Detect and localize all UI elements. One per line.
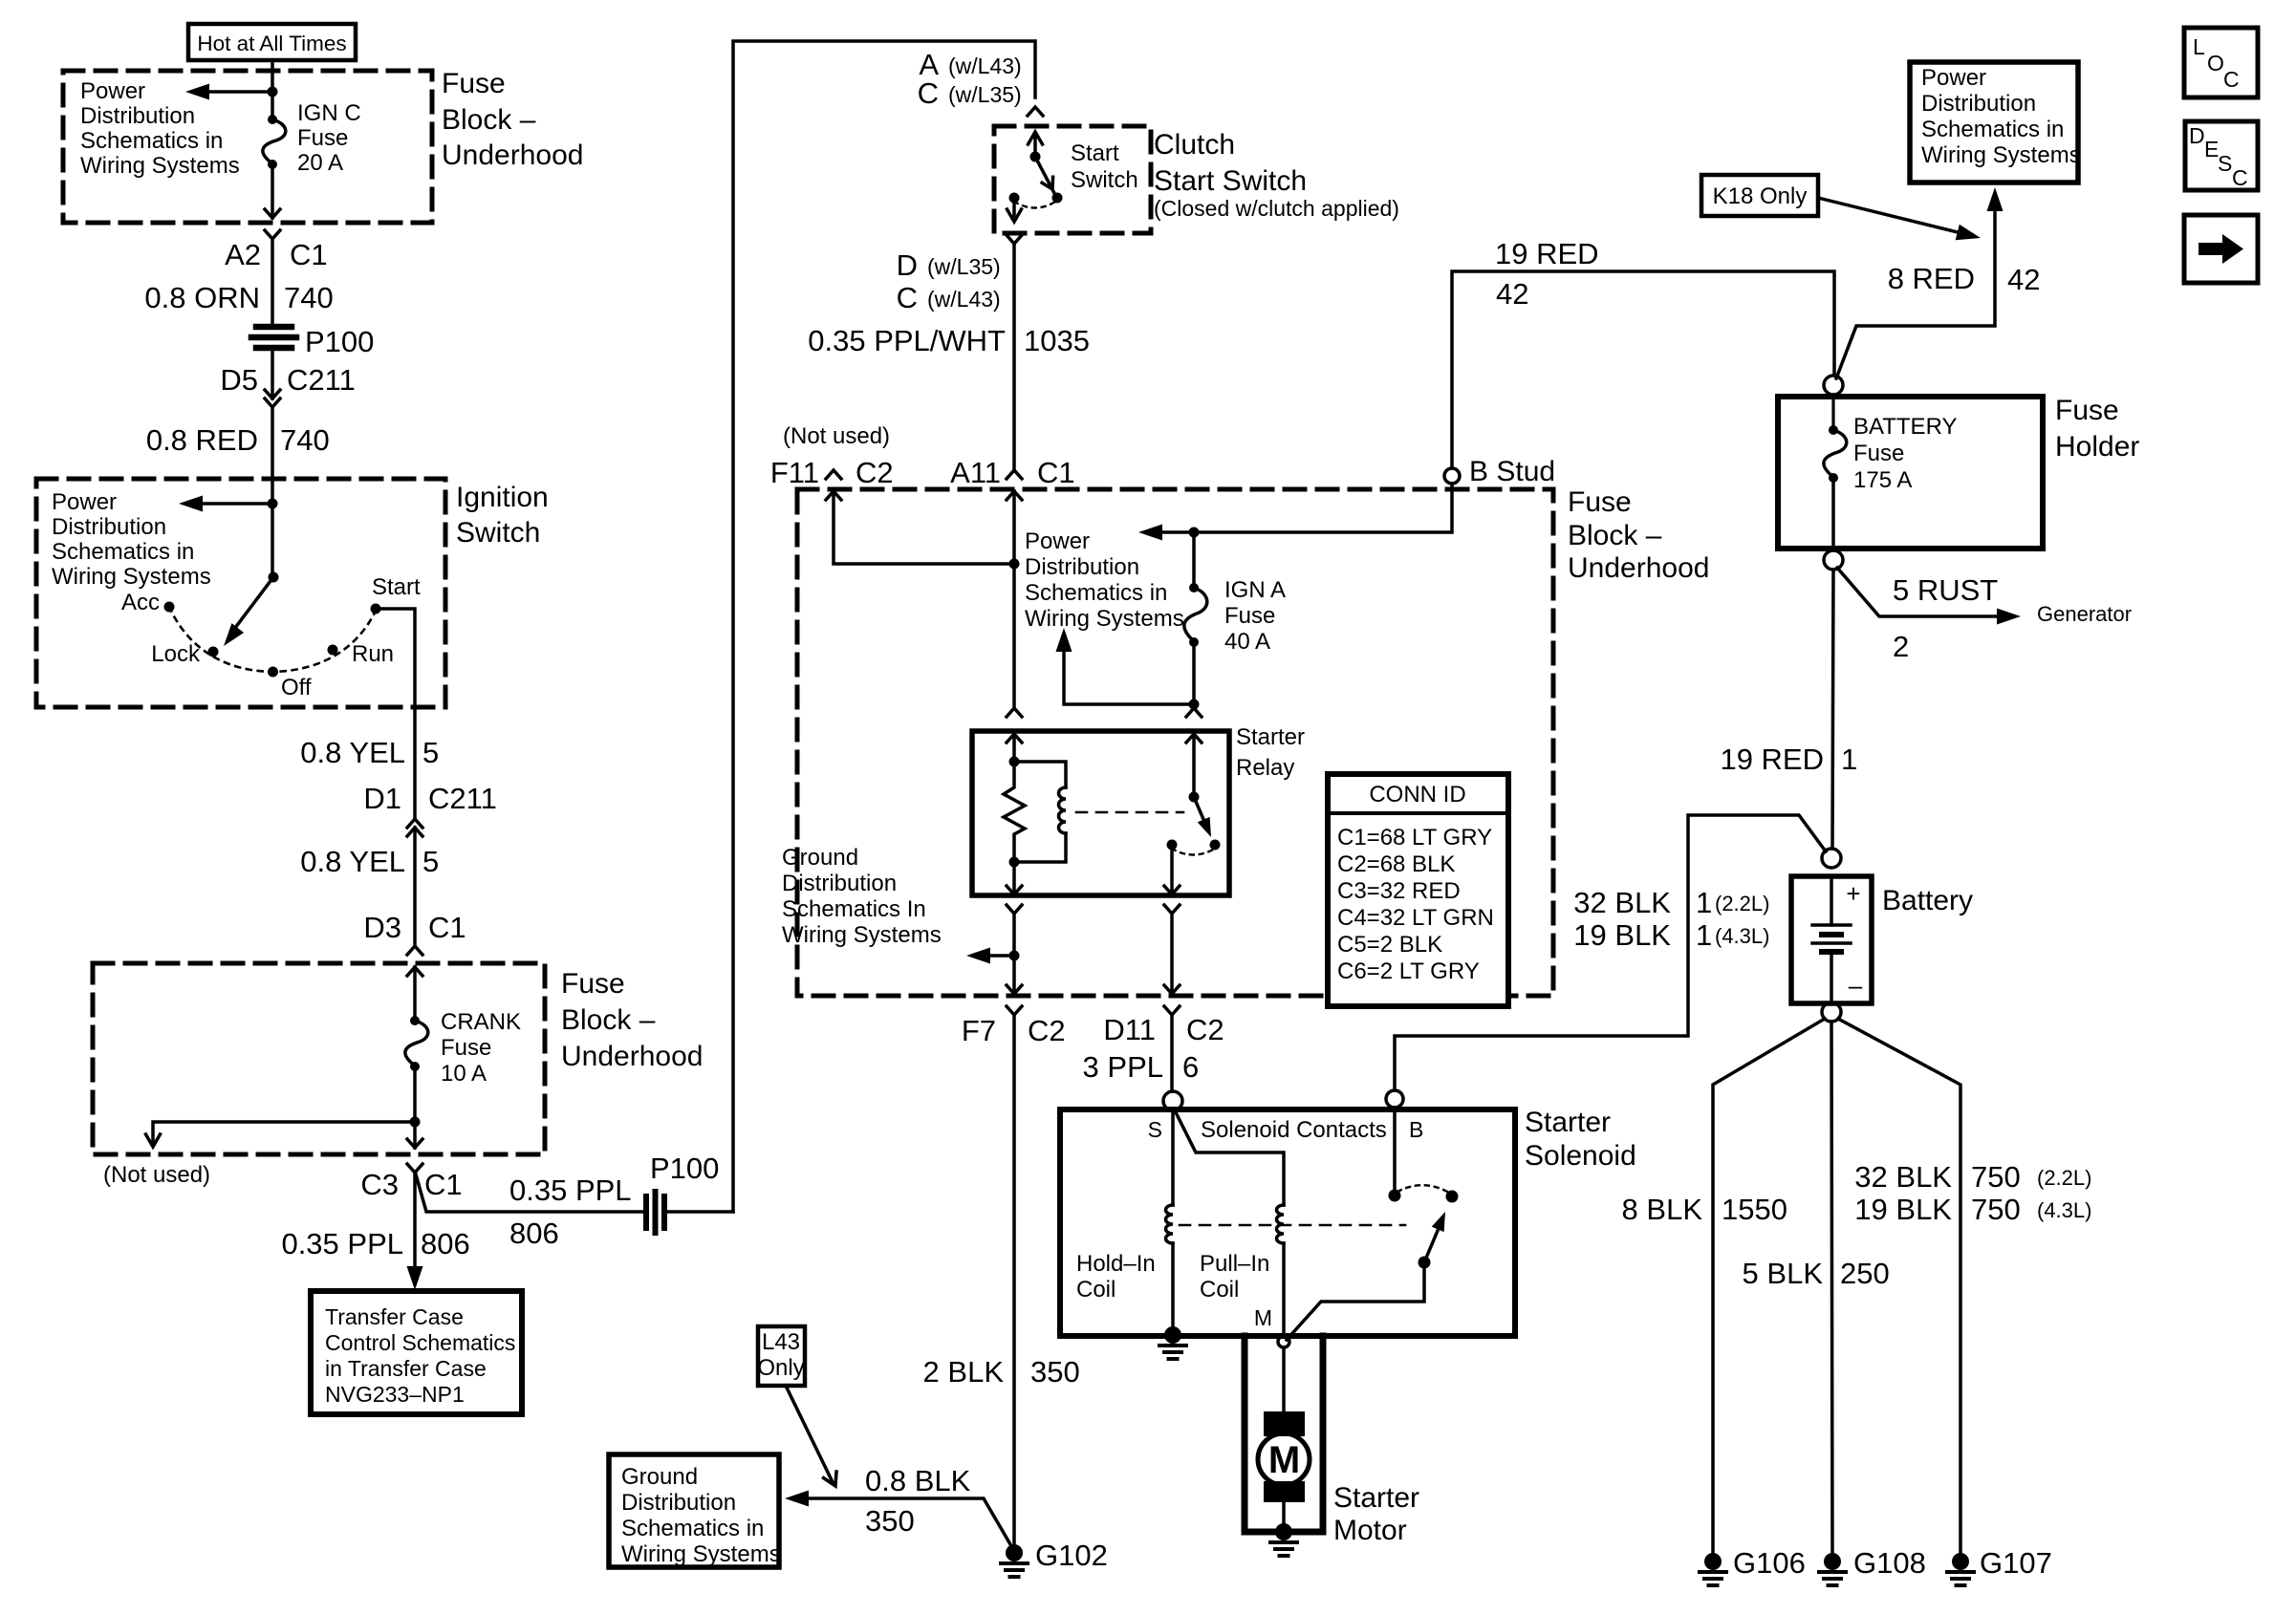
dashed box Fuse Block - Underhood (top left) [63,71,432,223]
label Pull-In Coil [1200,1251,1269,1303]
contact Lock [208,647,219,657]
svg-text:750: 750 [1971,1160,2021,1194]
dashed box Fuse Block - Underhood (center) [797,489,1553,996]
arrow to Power Distribution Schematics (ignition switch) [179,496,272,512]
clutch switch blade tip dot [1052,193,1063,204]
svg-text:C: C [2232,165,2248,190]
junction dot ground distribution [1009,951,1020,961]
svg-text:Distribution: Distribution [621,1490,736,1516]
svg-text:M: M [1268,1439,1300,1481]
solenoid contact blade [1424,1209,1451,1262]
svg-text:D3: D3 [363,911,401,944]
arrow to ground distribution [966,948,1014,964]
svg-text:2 BLK: 2 BLK [923,1355,1005,1389]
svg-text:C: C [918,76,939,110]
svg-text:Schematics in: Schematics in [1025,580,1167,606]
svg-text:8 RED: 8 RED [1888,262,1975,295]
svg-text:BATTERY: BATTERY [1853,414,1957,440]
wire 0.8 BLK 350 to G102 [785,1491,1014,1552]
contact Off [268,667,278,678]
svg-text:1035: 1035 [1024,324,1090,357]
svg-text:B Stud: B Stud [1469,456,1555,487]
svg-text:Underhood: Underhood [442,140,583,171]
dashed mechanical link relay [1076,811,1183,814]
svg-text:D: D [2189,123,2205,148]
junction dot [268,87,278,97]
connector A2/C1 at fuse block border [265,209,280,239]
terminal circle fuse holder bottom [1824,550,1843,570]
connector D3/C1 at fuse block border [407,946,422,976]
relay coil output wire [1007,862,1022,894]
svg-text:Fuse: Fuse [1568,486,1632,518]
svg-text:0.8 YEL: 0.8 YEL [300,845,405,878]
svg-text:0.8 ORN: 0.8 ORN [144,281,260,314]
svg-text:M: M [1254,1305,1272,1330]
svg-text:C: C [897,281,918,314]
svg-text:5 RUST: 5 RUST [1893,573,1998,607]
wire from Start contact down to connector C211 [376,609,415,819]
wire P100 to connector C211 [271,350,274,398]
svg-text:Starter: Starter [1236,724,1305,750]
box Battery [1791,876,1872,1003]
svg-text:Hold–In: Hold–In [1076,1251,1156,1277]
svg-text:(Not used): (Not used) [103,1162,210,1188]
svg-text:806: 806 [509,1217,559,1250]
svg-text:C3=32 RED: C3=32 RED [1337,878,1461,904]
svg-text:19 RED: 19 RED [1720,743,1824,776]
grommet P100 (horizontal) [251,327,296,348]
svg-text:Schematics In: Schematics In [782,896,926,922]
svg-text:NVG233–NP1: NVG233–NP1 [325,1382,465,1407]
terminal circle S [1163,1091,1182,1110]
wire to IGN A fuse [1192,532,1196,588]
pull-in coil winding [1277,1205,1284,1243]
connector D1/C211 [407,819,422,836]
svg-text:Distribution: Distribution [1921,91,2036,117]
pin label D (w/L35) [897,248,1001,282]
svg-text:Power: Power [1921,65,1986,91]
connector below relay switch [1164,905,1180,914]
wire 806 from P100 to riser [668,1210,733,1214]
svg-text:Distribution: Distribution [782,871,897,896]
connector below clutch start switch [1007,235,1022,244]
svg-text:C6=2 LT GRY: C6=2 LT GRY [1337,958,1480,984]
branch wire to power distribution up arrow [1056,628,1195,704]
svg-text:19 RED: 19 RED [1495,237,1599,270]
label Starter Motor [1333,1482,1419,1546]
arrow from L43 Only to 0.8 BLK wire [786,1386,842,1489]
connector F7/C2 at border [1007,985,1022,1015]
svg-text:Wiring Systems: Wiring Systems [621,1541,781,1567]
svg-text:Off: Off [281,675,312,700]
svg-text:C: C [2223,67,2240,92]
label Hold-In Coil [1076,1251,1156,1303]
wire 19 RED 1 to battery [1832,570,1833,849]
fuse IGN C 20 A [263,115,286,169]
box Starter Solenoid [1060,1109,1515,1336]
relay coil input wire [1012,734,1016,762]
box Power Distribution Schematics in Wiring Systems (top right) [1910,62,2081,183]
svg-text:40 A: 40 A [1224,629,1270,655]
connector at clutch start switch top [1028,107,1043,116]
svg-text:P100: P100 [305,325,374,358]
junction dot relay coil top [1009,757,1020,767]
svg-text:Solenoid Contacts: Solenoid Contacts [1201,1117,1387,1143]
hold-in coil winding [1166,1205,1174,1243]
label 1 (2.2L) [1696,886,1769,919]
relay blade tip dot [1210,840,1221,851]
svg-text:Block –: Block – [561,1004,656,1036]
connector D5/C211 [265,390,280,407]
wire IGN C fuse to connector C1 [271,164,274,218]
svg-text:O: O [2207,51,2224,75]
label 750 (2.2L) [1971,1160,2091,1194]
wire 2 BLK 350 to G102 [1012,1015,1016,1553]
svg-text:C211: C211 [428,782,497,815]
ground G106 [1700,1553,1726,1585]
svg-text:3 PPL: 3 PPL [1083,1050,1163,1084]
svg-text:Coil: Coil [1200,1277,1239,1303]
svg-text:5: 5 [422,845,439,878]
relay coil winding [1014,762,1066,862]
svg-text:D5: D5 [220,363,258,397]
dashed rotation arc through switch positions [169,607,377,672]
svg-text:Switch: Switch [1071,167,1138,193]
pin label C (w/L43) [897,281,1001,314]
svg-text:Wiring Systems: Wiring Systems [782,922,942,948]
svg-text:C5=2 BLK: C5=2 BLK [1337,932,1442,958]
svg-text:32 BLK: 32 BLK [1854,1160,1952,1194]
connector below relay coil [1007,905,1022,914]
label Clutch Start Switch [1154,129,1399,221]
svg-text:S: S [2218,151,2232,176]
svg-text:C2: C2 [1186,1013,1224,1046]
contact Run [328,645,338,656]
text Power Distribution Schematics in Wiring Systems (fuse block A) [80,78,240,179]
svg-text:Distribution: Distribution [52,514,166,540]
grommet P100 (vertical) [646,1192,664,1233]
ground starter motor [1270,1523,1297,1556]
svg-text:0.35 PPL: 0.35 PPL [281,1227,403,1260]
svg-text:Distribution: Distribution [1025,554,1139,580]
legend box arrow [2184,215,2258,283]
text Ground Distribution Schematics In Wiring Systems [782,845,942,948]
svg-text:Power: Power [1025,528,1090,554]
svg-text:42: 42 [1496,277,1528,311]
svg-text:0.8 BLK: 0.8 BLK [865,1464,971,1497]
svg-text:Acc: Acc [121,590,160,615]
legend box DESC [2185,121,2258,190]
connector at relay coil input [1007,708,1022,743]
svg-text:Ignition: Ignition [456,482,549,513]
box K18 Only [1701,175,1818,216]
svg-text:Wiring Systems: Wiring Systems [80,153,240,179]
svg-text:C1: C1 [290,238,328,271]
label CRANK Fuse 10 A [441,1009,521,1087]
wire battery fuse to bottom terminal [1831,478,1835,550]
dashed arc clutch switch [1014,202,1055,208]
svg-text:Schematics in: Schematics in [1921,117,2064,142]
svg-text:Power: Power [52,489,117,515]
dashed arc solenoid contacts [1397,1185,1449,1193]
svg-text:Wiring Systems: Wiring Systems [1025,606,1184,632]
dashed box Clutch Start Switch [994,126,1151,233]
dashed box Ignition Switch [36,479,445,707]
riser wire up to clutch start switch [733,41,1035,1212]
svg-text:175 A: 175 A [1853,467,1912,493]
label Fuse Holder [2055,395,2139,463]
svg-text:Ground: Ground [621,1464,698,1490]
svg-text:S: S [1148,1117,1162,1142]
contact Acc [164,602,175,613]
dashed arc relay contact [1172,849,1215,855]
legend box LOC [2184,28,2258,97]
text Power Distribution Schematics in Wiring Systems (center) [1025,528,1184,632]
ground G108 [1819,1553,1846,1585]
svg-text:0.35 PPL/WHT: 0.35 PPL/WHT [808,324,1006,357]
wire A11 down to starter relay [1012,491,1016,707]
svg-text:K18 Only: K18 Only [1713,183,1808,209]
svg-text:C2: C2 [1028,1014,1066,1047]
terminal circle fuse holder top [1824,376,1843,395]
svg-text:F7: F7 [962,1014,996,1047]
relay switch blade [1194,797,1217,840]
box Transfer Case Control Schematics [311,1291,522,1414]
svg-text:Fuse: Fuse [1853,441,1904,466]
svg-text:Start: Start [1071,140,1119,166]
dashed mechanical link solenoid [1180,1224,1405,1227]
svg-text:D1: D1 [363,782,401,815]
relay resistor [1004,762,1025,862]
svg-text:20 A: 20 A [297,150,343,176]
label 750 (4.3L) [1971,1193,2091,1226]
svg-text:G108: G108 [1853,1546,1926,1580]
svg-text:C1: C1 [1037,456,1075,489]
relay stationary contact dot [1167,840,1178,851]
svg-text:Block –: Block – [442,104,536,136]
label Ignition Switch [456,482,549,549]
clutch switch output arrow [1007,203,1022,222]
text Power Distribution Schematics in Wiring Systems (ignition switch) [52,489,211,590]
solenoid fixed contact dot [1389,1190,1401,1202]
heavy cable frame around starter motor [1245,1336,1323,1532]
svg-text:1: 1 [1696,886,1712,919]
ground G102 [1001,1544,1028,1577]
svg-text:F11: F11 [770,456,819,489]
svg-text:Switch: Switch [456,517,540,549]
svg-text:0.8 YEL: 0.8 YEL [300,736,405,769]
svg-text:19 BLK: 19 BLK [1854,1193,1952,1226]
dashed box Fuse Block - Underhood (bottom left) [93,963,545,1154]
wire B stud to power distribution arrow [1159,484,1452,532]
svg-text:C2: C2 [856,456,894,489]
clutch switch pivot dot [1030,152,1041,162]
svg-text:740: 740 [284,281,334,314]
fuse IGN A 40 A [1184,583,1207,647]
svg-text:Underhood: Underhood [561,1041,703,1072]
wire IGN A fuse down [1192,642,1196,707]
svg-text:Fuse: Fuse [442,68,506,99]
svg-text:Fuse: Fuse [2055,395,2119,426]
svg-text:1550: 1550 [1722,1193,1787,1226]
terminal circle battery negative [1822,1002,1841,1022]
svg-text:Fuse: Fuse [441,1035,491,1061]
svg-text:D: D [897,248,918,282]
svg-text:+: + [1846,879,1860,908]
connector at relay switch input [1186,708,1202,743]
svg-text:Starter: Starter [1333,1482,1419,1514]
wire from Hot at All Times down to IGN C fuse [271,60,274,119]
svg-text:10 A: 10 A [441,1061,487,1087]
svg-text:740: 740 [280,423,330,457]
svg-text:Start: Start [372,574,421,600]
svg-text:Transfer Case: Transfer Case [325,1304,464,1329]
svg-text:A11: A11 [950,456,1001,489]
svg-text:(4.3L): (4.3L) [1715,924,1769,948]
svg-text:L43: L43 [762,1329,800,1355]
wire B to solenoid contact [1393,1108,1397,1195]
table CONN ID [1328,774,1508,1006]
svg-text:D11: D11 [1103,1013,1156,1046]
branch wire to Not used terminal [153,1122,415,1144]
svg-text:Schematics in: Schematics in [621,1516,764,1541]
relay switch input wire [1192,734,1196,797]
svg-text:(4.3L): (4.3L) [2037,1198,2091,1222]
clutch switch input terminal arrow [1029,132,1043,157]
box Fuse Holder [1778,397,2043,549]
wire relay switch to border [1170,914,1174,994]
wire 32/19 BLK 1 from B terminal to battery positive [1395,815,1826,1090]
svg-text:Distribution: Distribution [80,103,195,129]
svg-text:Run: Run [352,641,394,667]
svg-text:42: 42 [2007,263,2040,296]
wire M to starter motor [1282,1347,1286,1413]
ground G107 [1947,1553,1974,1585]
svg-text:Schematics in: Schematics in [80,128,223,154]
svg-text:32 BLK: 32 BLK [1573,886,1671,919]
junction dot relay coil bottom [1009,857,1020,868]
label Start Switch (inside) [1071,140,1138,193]
junction dot F11 feed [1009,559,1020,570]
svg-text:1: 1 [1841,743,1857,776]
svg-text:IGN C: IGN C [297,100,361,126]
svg-text:Schematics in: Schematics in [52,539,194,565]
svg-text:G106: G106 [1733,1546,1806,1580]
battery negative split wires [1713,1019,1960,1553]
junction dot ignition feed [268,499,278,509]
svg-text:Battery: Battery [1882,885,1973,916]
svg-text:A2: A2 [225,238,261,271]
wire relay coil to ground distribution [1012,914,1016,994]
svg-text:Starter: Starter [1525,1107,1611,1138]
pin label C (w/L35) [918,76,1022,110]
svg-text:C2=68 BLK: C2=68 BLK [1337,851,1455,877]
svg-text:Solenoid: Solenoid [1525,1140,1636,1172]
arrow to Power Distribution Schematics (fuse block A) [185,84,272,100]
hold-in coil wire [1171,1110,1175,1205]
solenoid internal ground [1159,1326,1186,1359]
label IGN C Fuse 20 A [297,100,361,176]
svg-text:Holder: Holder [2055,431,2139,463]
svg-text:Hot at All Times: Hot at All Times [197,32,346,55]
svg-text:0.35 PPL: 0.35 PPL [509,1174,632,1207]
svg-text:5 BLK: 5 BLK [1743,1257,1824,1290]
connector D11/C2 at border [1164,985,1180,1015]
terminal circle battery positive [1822,849,1841,868]
svg-text:Control Schematics: Control Schematics [325,1330,515,1355]
svg-text:(w/L43): (w/L43) [927,287,1001,312]
B stud circle [1444,468,1460,484]
svg-text:Wiring Systems: Wiring Systems [52,564,211,590]
svg-text:C1: C1 [424,1168,463,1201]
label Fuse Block - Underhood (center) [1568,486,1709,584]
svg-text:P100: P100 [650,1152,719,1185]
svg-text:C1=68 LT GRY: C1=68 LT GRY [1337,825,1492,851]
svg-text:Clutch: Clutch [1154,129,1235,161]
svg-text:750: 750 [1971,1193,2021,1226]
svg-text:(Closed w/clutch applied): (Closed w/clutch applied) [1154,196,1399,221]
svg-text:(2.2L): (2.2L) [1715,892,1769,915]
arrow to power distribution (B stud feed) [1138,525,1162,541]
battery cell symbol [1812,879,1851,1001]
label Fuse Block - Underhood (bottom left) [561,968,703,1072]
svg-text:Block –: Block – [1568,520,1662,551]
svg-text:350: 350 [865,1504,915,1538]
svg-text:2: 2 [1893,630,1909,663]
svg-text:B: B [1409,1117,1423,1142]
svg-text:Fuse: Fuse [561,968,625,1000]
junction dot crank branch [410,1117,421,1128]
svg-text:Ground: Ground [782,845,858,871]
svg-text:L: L [2193,34,2205,59]
svg-text:6: 6 [1182,1050,1199,1084]
svg-text:Underhood: Underhood [1568,552,1709,584]
wire motor to ground [1282,1502,1286,1525]
svg-text:G107: G107 [1980,1546,2052,1580]
connector A11/C1 at fuse block border [1007,470,1022,500]
junction dot at wiper pivot [269,572,279,583]
connector C3/C1 at border [407,1139,422,1173]
wire 5 RUST 2 to generator [1837,568,2021,625]
clutch switch blade [1035,157,1058,195]
svg-text:250: 250 [1840,1257,1890,1290]
box L43 Only [757,1326,805,1386]
svg-text:19 BLK: 19 BLK [1573,918,1671,952]
svg-text:(w/L35): (w/L35) [948,82,1022,107]
svg-text:Coil: Coil [1076,1277,1116,1303]
svg-text:G102: G102 [1035,1539,1108,1572]
svg-text:806: 806 [421,1227,470,1260]
wire 8 RED 42 branch [1836,187,2004,378]
box Ground Distribution Schematics in Wiring Systems [609,1454,781,1567]
terminal circle B [1386,1090,1403,1108]
svg-text:Start Switch: Start Switch [1154,165,1307,197]
label IGN A Fuse 40 A [1224,577,1286,655]
svg-text:C211: C211 [287,363,356,397]
svg-text:(w/L35): (w/L35) [927,254,1001,279]
fuse CRANK 10 A [405,1016,428,1071]
svg-text:350: 350 [1030,1355,1080,1389]
box Starter Relay [972,731,1229,895]
svg-text:Only: Only [757,1355,804,1381]
svg-text:Fuse: Fuse [297,125,348,151]
contact Start [371,604,381,614]
wire 0.35 PPL/WHT 1035 [1012,244,1016,470]
label Fuse Block - Underhood (top left) [442,68,583,171]
arrow into Transfer Case box [407,1266,423,1290]
svg-text:5: 5 [422,736,439,769]
wire 3 PPL 6 to starter solenoid [1170,1015,1174,1091]
